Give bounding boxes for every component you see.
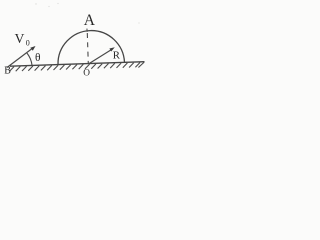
velocity vector V0 (head) (30, 46, 35, 51)
ground hatching (9, 62, 144, 71)
radius arrow R (shaft) (89, 50, 111, 64)
dome (semicircle) (58, 31, 125, 65)
svg-text:B: B (4, 65, 11, 76)
svg-text:O: O (83, 69, 90, 79)
radius arrow R (head) (109, 47, 114, 51)
svg-text:V: V (15, 31, 25, 46)
svg-text:θ: θ (35, 52, 41, 64)
svg-text:R: R (113, 50, 121, 62)
dashed line A to O (87, 33, 88, 64)
ground line (10, 62, 145, 66)
background (0, 0, 151, 107)
svg-text:0: 0 (26, 39, 30, 48)
svg-text:A: A (84, 12, 96, 29)
tick at apex (point A mark) (86, 29, 88, 32)
angle theta arc (27, 53, 32, 65)
scan speckles (35, 3, 139, 24)
velocity vector V0 (shaft) (7, 49, 32, 68)
